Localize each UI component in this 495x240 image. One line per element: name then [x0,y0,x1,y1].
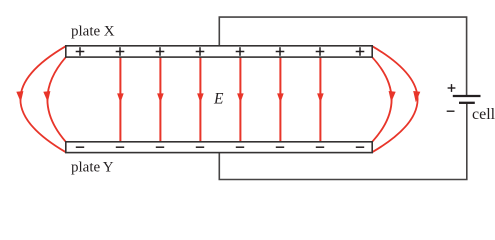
svg-text:X: X [104,23,115,39]
arrowhead right outer [413,91,420,102]
field line curve right inner [372,57,391,142]
wire top: plate X to cell positive [219,17,466,95]
svg-text:cell: cell [472,106,495,123]
arrowhead field line 1 [117,93,124,102]
field line curve right outer [372,46,417,152]
arrowhead right inner [389,91,396,102]
svg-text:Y: Y [103,160,114,176]
field line 4 [239,58,241,142]
arrowhead left outer [16,91,23,102]
cell plus sign label [448,84,456,92]
svg-text:plate: plate [71,23,100,39]
arrowhead field line 3 [197,93,204,102]
plus charges on plate X [76,47,365,56]
cell minus sign label [447,110,455,112]
cell positive terminal (long bar) [453,95,481,97]
field line 1 [119,58,121,142]
field line 3 [199,58,201,142]
field line 5 [279,58,281,142]
arrowhead field line 6 [317,93,324,102]
arrowhead field line 2 [157,93,164,102]
arrowhead left inner [43,91,50,102]
field line 6 [319,58,321,142]
field line 2 [159,58,161,142]
svg-text:E: E [213,91,224,108]
cell negative terminal (short bar) [459,102,475,104]
plate Y rectangle [66,142,372,153]
svg-text:plate: plate [71,160,100,176]
plate X rectangle [66,46,372,57]
wire bottom: plate Y to cell negative [219,104,466,180]
field line curve left inner [47,57,65,142]
arrowhead field line 4 [237,93,244,102]
minus charges on plate Y [76,146,364,148]
field line curve left outer [20,46,65,152]
arrowhead field line 5 [277,93,284,102]
